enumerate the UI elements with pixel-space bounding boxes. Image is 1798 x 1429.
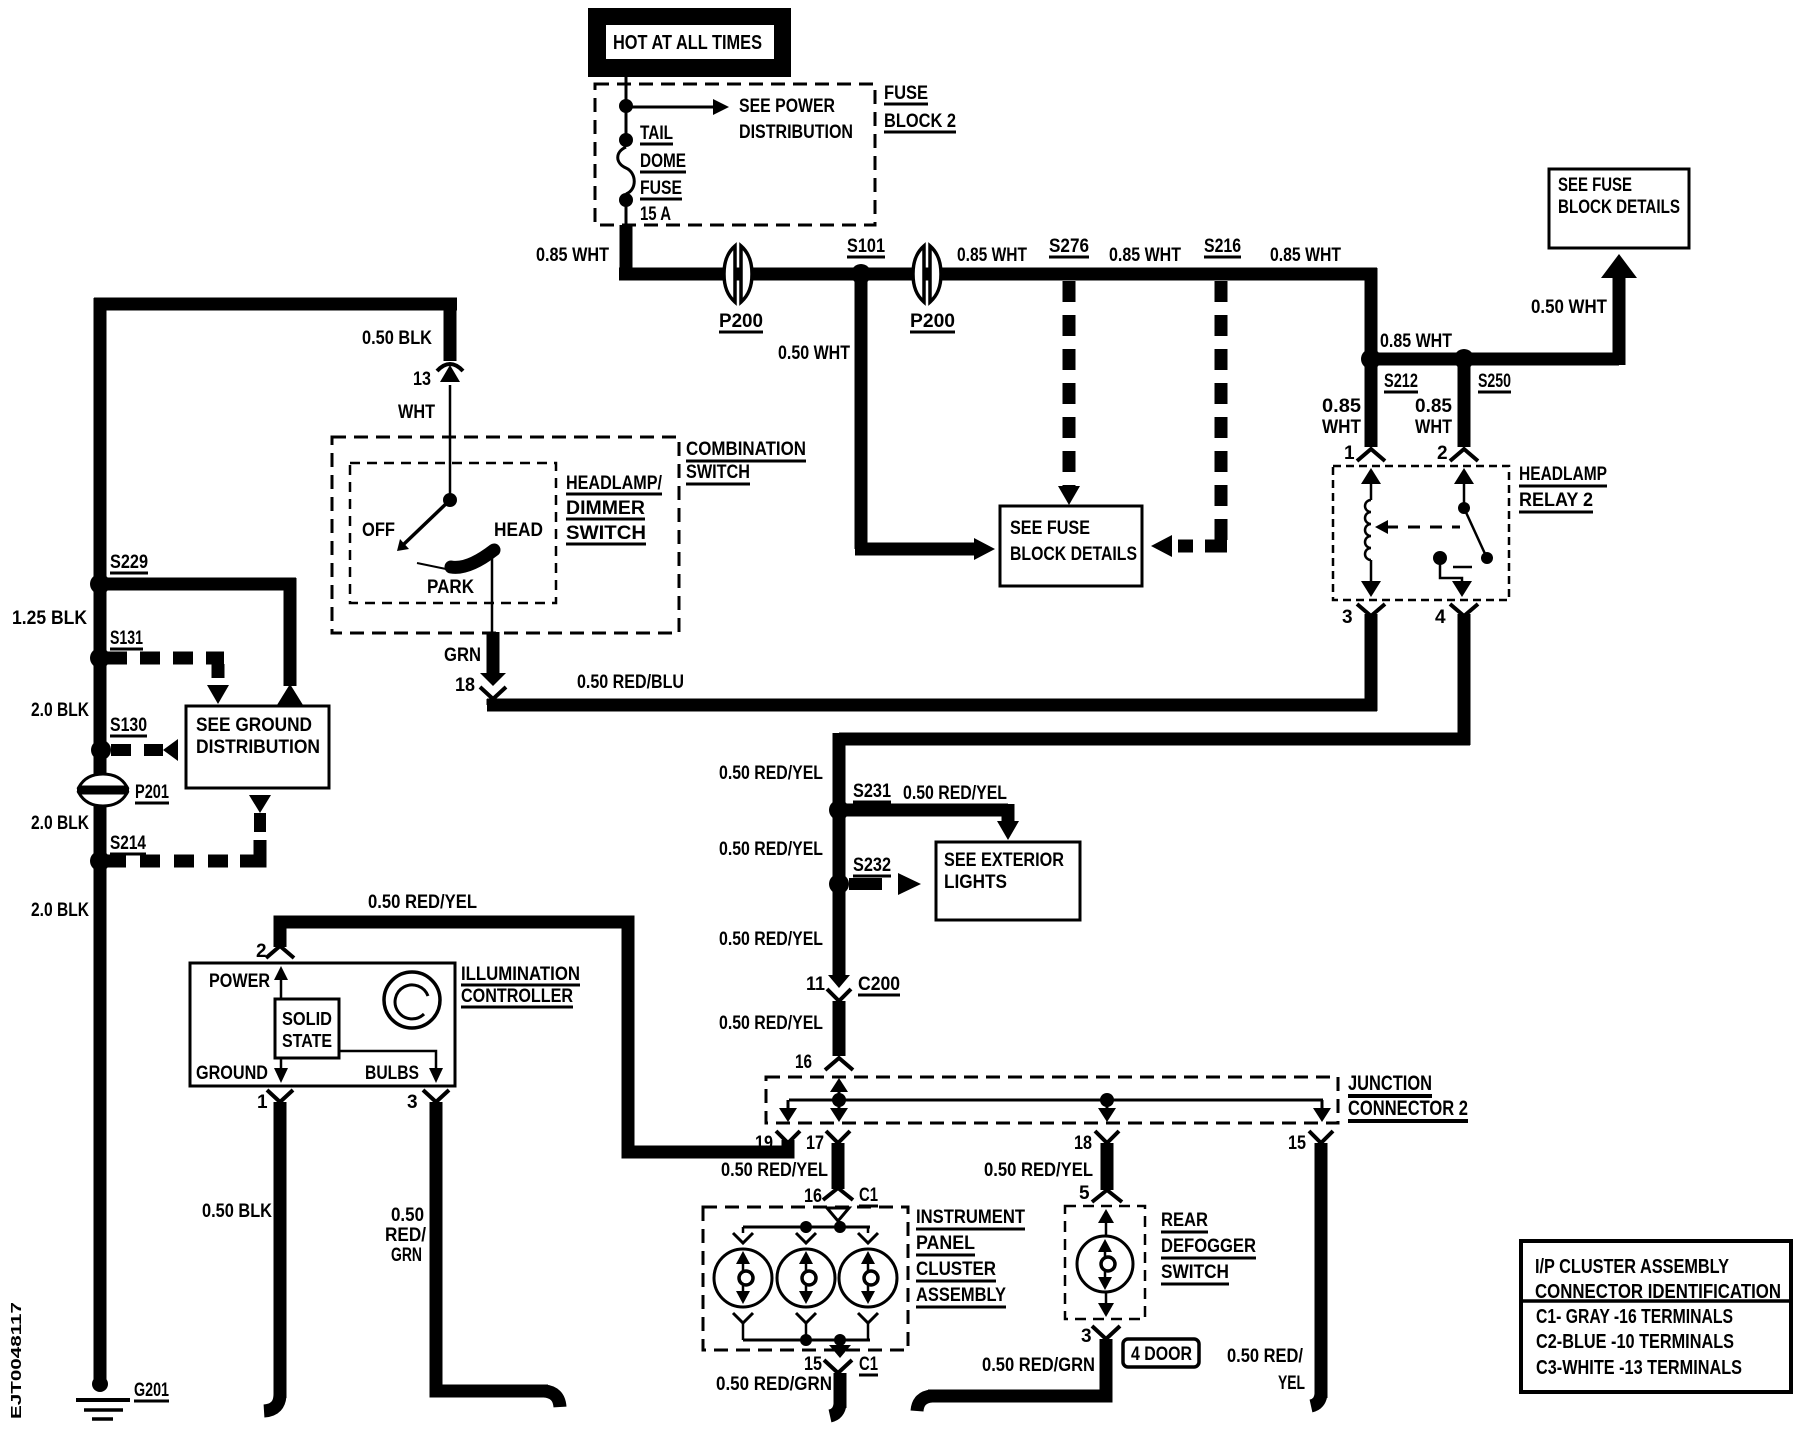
svg-text:RED/: RED/ <box>385 1225 427 1246</box>
label 1.25 BLK <box>12 608 87 629</box>
svg-text:SEE EXTERIOR: SEE EXTERIOR <box>944 850 1064 871</box>
svg-text:1.25 BLK: 1.25 BLK <box>12 608 87 629</box>
label HEADLAMP/ DIMMER SWITCH <box>566 473 663 544</box>
label COMBINATION SWITCH <box>686 439 806 484</box>
lamp bulb 1 <box>714 1249 772 1307</box>
svg-text:C1- GRAY -16 TERMINALS: C1- GRAY -16 TERMINALS <box>1536 1306 1733 1328</box>
node S212 <box>1361 349 1381 369</box>
svg-text:DISTRIBUTION: DISTRIBUTION <box>196 737 320 758</box>
wire main 0.85 WHT feed horizontal <box>619 268 1377 281</box>
wire relay pin 2 feed <box>1458 359 1471 447</box>
svg-text:S276: S276 <box>1049 236 1089 257</box>
label S229 <box>110 552 148 573</box>
label 0.50 WHT <box>778 343 850 364</box>
node S250 <box>1454 349 1474 369</box>
controller knob <box>384 972 440 1028</box>
svg-text:0.50 BLK: 0.50 BLK <box>202 1201 272 1222</box>
junction internal arrow pin 18 <box>1098 1100 1116 1122</box>
label S131 <box>110 628 143 649</box>
svg-text:0.85 WHT: 0.85 WHT <box>957 245 1027 266</box>
junction internal arrow pin 15 <box>1313 1100 1331 1122</box>
defogger lamp <box>1077 1236 1133 1292</box>
label S212 <box>1384 371 1418 392</box>
svg-text:0.50 RED/YEL: 0.50 RED/YEL <box>719 763 823 784</box>
svg-text:ASSEMBLY: ASSEMBLY <box>916 1285 1006 1306</box>
svg-text:0.50 WHT: 0.50 WHT <box>778 343 850 364</box>
wire S214 dashed branch from ground distribution <box>107 795 271 861</box>
svg-text:17: 17 <box>806 1133 824 1154</box>
connector C200 pin 11 <box>806 974 851 1001</box>
label 0.50 RED/YEL (S231 branch) <box>903 783 1007 804</box>
svg-text:S212: S212 <box>1384 371 1418 392</box>
svg-text:HEADLAMP/: HEADLAMP/ <box>566 473 663 494</box>
C1 pin 15 terminal <box>804 1354 852 1375</box>
wire cluster pin 15 down <box>830 1373 840 1416</box>
cluster exit triangle <box>829 1340 851 1358</box>
svg-text:15: 15 <box>804 1354 822 1375</box>
svg-text:2.0 BLK: 2.0 BLK <box>31 900 89 921</box>
switch contact arc <box>417 550 494 569</box>
wire drop to combination switch pin 13 <box>444 298 457 361</box>
controller internal bulbs arrow <box>339 1051 443 1083</box>
label P201 <box>135 782 169 803</box>
svg-text:S231: S231 <box>853 781 891 802</box>
svg-text:GRN: GRN <box>391 1245 422 1266</box>
label C200 <box>858 974 900 995</box>
svg-text:P200: P200 <box>910 311 955 332</box>
label SEE POWER DISTRIBUTION <box>739 96 853 143</box>
label 0.85 WHT (pin2) <box>1415 396 1452 438</box>
bulb 2 top terminal <box>796 1227 816 1243</box>
label P200 (right) <box>910 311 955 332</box>
label 0.50 RED/ GRN <box>385 1205 427 1266</box>
pin 1 terminal <box>1344 443 1385 464</box>
svg-text:P201: P201 <box>135 782 169 803</box>
wire from HOT box into fuse block <box>625 77 628 134</box>
svg-text:4: 4 <box>1435 607 1446 628</box>
label BULBS <box>365 1063 419 1084</box>
svg-text:0.85 WHT: 0.85 WHT <box>1270 245 1341 266</box>
svg-text:CLUSTER: CLUSTER <box>916 1259 996 1280</box>
svg-text:SWITCH: SWITCH <box>1161 1262 1229 1283</box>
bulb 3 bottom terminal <box>858 1313 878 1340</box>
connector P201 <box>77 774 129 806</box>
wire HEAD contact down <box>491 553 494 632</box>
label 0.85 WHT (3) <box>1109 245 1181 266</box>
junction connector 2 dashed box <box>766 1077 1338 1123</box>
svg-text:0.50 RED/YEL: 0.50 RED/YEL <box>368 892 477 913</box>
svg-text:2.0 BLK: 2.0 BLK <box>31 813 89 834</box>
svg-text:0.85 WHT: 0.85 WHT <box>536 245 609 266</box>
svg-text:INSTRUMENT: INSTRUMENT <box>916 1207 1025 1228</box>
pin 4 terminal <box>1435 604 1478 628</box>
svg-text:S131: S131 <box>110 628 143 649</box>
junction internal arrow pin 19 <box>779 1100 797 1122</box>
svg-text:4 DOOR: 4 DOOR <box>1131 1344 1192 1365</box>
node cluster top bus left <box>800 1221 812 1233</box>
svg-text:GROUND: GROUND <box>196 1063 268 1084</box>
svg-text:RELAY 2: RELAY 2 <box>1519 490 1593 511</box>
svg-text:STATE: STATE <box>282 1031 332 1051</box>
wire S130 dashed stub with arrow <box>111 739 178 761</box>
svg-text:0.85 WHT: 0.85 WHT <box>1109 245 1181 266</box>
node S101 <box>851 264 871 284</box>
svg-text:CONNECTOR IDENTIFICATION: CONNECTOR IDENTIFICATION <box>1535 1281 1781 1303</box>
svg-text:HEAD: HEAD <box>494 520 543 541</box>
bulb 2 bottom terminal <box>796 1313 816 1340</box>
svg-text:CONTROLLER: CONTROLLER <box>461 986 573 1007</box>
headlamp/dimmer switch inner dashed box <box>350 463 556 603</box>
svg-text:0.50 BLK: 0.50 BLK <box>362 328 432 349</box>
svg-text:S229: S229 <box>110 552 148 573</box>
lamp bulb 2 <box>777 1249 835 1307</box>
wire S231 to C200 vertical <box>833 810 846 975</box>
label S250 <box>1478 371 1511 392</box>
wire riser to fuse block details (top right) <box>1601 254 1637 365</box>
label 0.85 WHT (2) <box>957 245 1027 266</box>
label C1 (bottom) <box>859 1354 878 1375</box>
svg-text:CONNECTOR 2: CONNECTOR 2 <box>1348 1097 1468 1120</box>
svg-text:5: 5 <box>1079 1183 1090 1204</box>
pin 18 terminal <box>455 673 506 699</box>
label S214 <box>110 833 146 854</box>
label 0.50 RED/YEL (above S231) <box>719 763 823 784</box>
svg-text:HEADLAMP: HEADLAMP <box>1519 464 1607 485</box>
cluster bottom bus <box>743 1339 870 1342</box>
label 0.50 RED/YEL (pin 18) <box>984 1160 1093 1181</box>
svg-text:3: 3 <box>1081 1326 1092 1347</box>
relay actuation dashed link <box>1375 520 1460 534</box>
wire top-right corner down <box>1365 268 1378 359</box>
svg-text:C200: C200 <box>858 974 900 995</box>
svg-text:2.0 BLK: 2.0 BLK <box>31 700 89 721</box>
svg-text:PARK: PARK <box>427 577 474 598</box>
svg-text:SEE FUSE: SEE FUSE <box>1010 518 1090 539</box>
svg-text:C3-WHITE -13 TERMINALS: C3-WHITE -13 TERMINALS <box>1536 1357 1742 1379</box>
label P200 (left) <box>719 311 763 332</box>
label EJT0048117 (vertical) <box>8 1302 25 1419</box>
svg-text:JUNCTION: JUNCTION <box>1348 1072 1432 1095</box>
label 0.50 RED/GRN (cluster) <box>716 1374 832 1395</box>
label ILLUMINATION CONTROLLER <box>461 964 580 1007</box>
svg-text:18: 18 <box>455 675 475 696</box>
label JUNCTION CONNECTOR 2 <box>1348 1072 1468 1121</box>
svg-text:C1: C1 <box>859 1354 878 1375</box>
svg-text:1: 1 <box>257 1092 268 1113</box>
svg-text:1: 1 <box>1344 443 1355 464</box>
pin 3 terminal <box>407 1090 449 1113</box>
wire controller bulbs 0.50 RED/GRN <box>436 1102 560 1407</box>
label HEADLAMP RELAY 2 <box>1519 464 1607 512</box>
svg-text:G201: G201 <box>134 1380 169 1401</box>
svg-text:3: 3 <box>407 1092 418 1113</box>
switch pivot node <box>443 493 457 507</box>
label HEAD <box>494 520 543 541</box>
SEE FUSE BLOCK DETAILS box (top right) <box>1549 169 1689 248</box>
wire pin 15 down right column <box>1311 1143 1321 1406</box>
label INSTRUMENT PANEL CLUSTER ASSEMBLY <box>916 1207 1025 1307</box>
svg-text:18: 18 <box>1074 1133 1092 1154</box>
pin 17 terminal <box>806 1131 850 1154</box>
svg-text:S250: S250 <box>1478 371 1511 392</box>
svg-text:WHT: WHT <box>1415 417 1452 438</box>
combination switch outer dashed box <box>332 437 679 633</box>
defogger pin 3 terminal <box>1081 1326 1120 1347</box>
pin 3 terminal <box>1342 604 1385 628</box>
svg-text:16: 16 <box>804 1186 822 1207</box>
pin 2 terminal <box>256 941 294 962</box>
wire S276 dashed drop <box>1058 281 1080 505</box>
svg-text:GRN: GRN <box>444 645 481 666</box>
bulb 1 bottom terminal <box>733 1313 753 1340</box>
wire relay pin 1 feed <box>1365 359 1378 447</box>
node cluster top bus entry <box>834 1221 846 1233</box>
label 0.50 RED/GRN (defogger) <box>982 1355 1095 1376</box>
label POWER <box>209 971 270 992</box>
svg-text:P200: P200 <box>719 311 763 332</box>
svg-text:0.50 RED/GRN: 0.50 RED/GRN <box>982 1355 1095 1376</box>
svg-text:0.50 RED/YEL: 0.50 RED/YEL <box>984 1160 1093 1181</box>
controller internal power arrow <box>274 966 288 999</box>
SEE GROUND DISTRIBUTION box <box>186 706 329 788</box>
svg-text:DEFOGGER: DEFOGGER <box>1161 1236 1256 1257</box>
wire S131 dashed branch <box>107 658 229 704</box>
wire left main ground run <box>94 298 107 1384</box>
label G201 <box>134 1380 169 1401</box>
svg-text:DIMMER: DIMMER <box>566 498 645 519</box>
svg-text:S216: S216 <box>1204 236 1241 257</box>
svg-text:3: 3 <box>1342 607 1353 628</box>
svg-text:0.85: 0.85 <box>1415 396 1452 417</box>
svg-text:SOLID: SOLID <box>282 1009 332 1029</box>
node S232 <box>829 874 849 894</box>
svg-text:BLOCK DETAILS: BLOCK DETAILS <box>1558 197 1680 218</box>
label 2.0 BLK (2) <box>31 813 89 834</box>
svg-text:19: 19 <box>755 1133 773 1154</box>
fuse TAIL DOME 15A symbol <box>618 133 635 225</box>
wire controller ground 0.50 BLK <box>264 1102 280 1411</box>
label 0.50 RED/ YEL (right) <box>1227 1346 1305 1394</box>
relay switch <box>1433 468 1493 597</box>
pin 13 terminal <box>413 364 463 390</box>
wire S216 dashed drop to fuse details <box>1151 281 1227 557</box>
svg-text:11: 11 <box>806 974 825 995</box>
pin 1 terminal <box>257 1090 293 1113</box>
label 0.50 RED/BLU <box>577 672 684 693</box>
svg-text:15: 15 <box>1288 1133 1306 1154</box>
svg-text:S130: S130 <box>110 715 147 736</box>
wire top left horizontal <box>94 298 457 311</box>
relay coil <box>1361 468 1381 597</box>
svg-text:DISTRIBUTION: DISTRIBUTION <box>739 122 853 143</box>
svg-text:TAIL: TAIL <box>640 123 673 144</box>
wire pin13 into switch <box>449 385 452 497</box>
label C1 (top) <box>859 1185 878 1206</box>
wire defogger pin 3 to hook <box>917 1339 1106 1411</box>
wire relay pin 4 drop to RED/YEL run <box>839 614 1470 810</box>
label 2.0 BLK <box>31 700 89 721</box>
label 0.50 RED/YEL (C200-16) <box>719 1013 823 1034</box>
svg-text:2: 2 <box>1437 443 1448 464</box>
svg-text:ILLUMINATION: ILLUMINATION <box>461 964 580 985</box>
rear defogger switch dashed box <box>1065 1206 1145 1319</box>
SEE EXTERIOR LIGHTS box <box>936 842 1080 920</box>
svg-text:YEL: YEL <box>1278 1373 1305 1394</box>
wire C200 to junction connector pin 16 <box>825 1001 853 1070</box>
switch lever to OFF <box>397 500 450 551</box>
node S229 <box>90 574 110 594</box>
junction internal double arrow (pin 16/17) <box>830 1078 848 1122</box>
label 0.50 RED/YEL (S232-C200) <box>719 929 823 950</box>
4 DOOR tag <box>1123 1339 1199 1367</box>
node fuse feed junction <box>619 99 633 113</box>
illumination controller box <box>190 963 455 1086</box>
wire GRN output <box>487 632 500 673</box>
svg-text:0.50: 0.50 <box>391 1205 424 1226</box>
svg-text:SEE POWER: SEE POWER <box>739 96 835 117</box>
label OFF <box>362 520 395 541</box>
svg-text:15 A: 15 A <box>640 204 671 225</box>
node S130 <box>91 740 111 760</box>
svg-text:0.85 WHT: 0.85 WHT <box>1380 331 1452 352</box>
svg-text:16: 16 <box>795 1052 812 1073</box>
node S131 <box>90 648 110 668</box>
label REAR DEFOGGER SWITCH <box>1161 1210 1256 1284</box>
cluster entry triangle <box>827 1208 849 1227</box>
svg-text:LIGHTS: LIGHTS <box>944 872 1007 893</box>
label S232 <box>853 855 891 876</box>
SEE FUSE BLOCK DETAILS box (middle) <box>1000 506 1142 586</box>
label S101 <box>847 236 885 257</box>
label 0.50 BLK <box>362 328 432 349</box>
label 0.85 WHT (pin1) <box>1322 396 1361 438</box>
label 0.50 RED/YEL (power run) <box>368 892 477 913</box>
svg-text:C1: C1 <box>859 1185 878 1206</box>
svg-text:0.50 RED/YEL: 0.50 RED/YEL <box>719 929 823 950</box>
svg-text:FUSE: FUSE <box>640 178 682 199</box>
ground G201 <box>76 1376 130 1419</box>
wire S101 0.50 WHT drop to fuse details <box>855 281 995 560</box>
svg-text:C2-BLUE -10 TERMINALS: C2-BLUE -10 TERMINALS <box>1536 1331 1734 1353</box>
defogger entry arrow <box>1098 1209 1114 1237</box>
label 0.50 RED/YEL (pin 19) <box>721 1160 828 1181</box>
wire S229 branch to ground distribution <box>100 578 303 705</box>
pin 15 terminal <box>1288 1131 1333 1154</box>
bulb 1 top terminal <box>733 1227 753 1243</box>
instrument panel cluster dashed box <box>703 1207 908 1350</box>
label 2.0 BLK (3) <box>31 900 89 921</box>
label 0.85 WHT <box>536 245 609 266</box>
svg-text:SEE GROUND: SEE GROUND <box>196 715 312 736</box>
svg-text:S101: S101 <box>847 236 885 257</box>
pin 19 terminal <box>755 1131 800 1154</box>
wire S231 branch to exterior lights <box>839 804 1019 840</box>
svg-text:SEE FUSE: SEE FUSE <box>1558 175 1632 196</box>
junction connector internal bus <box>789 1099 1323 1102</box>
pin 18 terminal <box>1074 1131 1119 1154</box>
cluster top bus <box>743 1226 870 1229</box>
lamp bulb 3 <box>839 1249 897 1307</box>
svg-text:0.50 RED/YEL: 0.50 RED/YEL <box>719 1013 823 1034</box>
svg-text:WHT: WHT <box>1322 417 1361 438</box>
label 0.50 RED/YEL (S231-S232) <box>719 839 823 860</box>
node S231 <box>829 800 849 820</box>
label GRN <box>444 645 481 666</box>
svg-text:2: 2 <box>256 941 267 962</box>
wire 0.50 RED/BLU horizontal <box>487 614 1377 711</box>
bulb 3 top terminal <box>858 1227 878 1243</box>
svg-text:0.50 RED/BLU: 0.50 RED/BLU <box>577 672 684 693</box>
label TAIL DOME FUSE 15 A <box>640 123 686 225</box>
svg-text:S214: S214 <box>110 833 146 854</box>
label 0.50 WHT (top right) <box>1531 297 1607 318</box>
I/P cluster connector identification table <box>1521 1241 1791 1392</box>
svg-text:REAR: REAR <box>1161 1210 1208 1231</box>
connector P200 (right) <box>913 246 941 302</box>
fuse block 2 dashed box <box>595 84 875 225</box>
svg-text:0.50 RED/: 0.50 RED/ <box>1227 1346 1304 1367</box>
svg-text:COMBINATION: COMBINATION <box>686 439 806 460</box>
svg-text:0.50 RED/YEL: 0.50 RED/YEL <box>719 839 823 860</box>
defogger pin 5 terminal <box>1079 1183 1122 1204</box>
svg-text:I/P CLUSTER ASSEMBLY: I/P CLUSTER ASSEMBLY <box>1535 1256 1730 1278</box>
HOT AT ALL TIMES power box <box>588 8 791 77</box>
svg-text:13: 13 <box>413 369 431 390</box>
label S216 <box>1204 236 1241 257</box>
label pin 16 <box>795 1052 812 1073</box>
label S276 <box>1049 236 1089 257</box>
svg-text:WHT: WHT <box>398 402 435 423</box>
svg-text:PANEL: PANEL <box>916 1233 975 1254</box>
svg-text:0.85: 0.85 <box>1322 396 1361 417</box>
SOLID STATE box <box>275 999 339 1058</box>
wire illumination power run (pin19 to controller pin2) <box>280 922 788 1152</box>
relay U headlamp relay 2 dashed box <box>1333 466 1509 600</box>
arrow to SEE POWER DISTRIBUTION <box>626 99 729 115</box>
svg-text:0.50 WHT: 0.50 WHT <box>1531 297 1607 318</box>
label S130 <box>110 715 147 736</box>
controller internal ground arrow <box>274 1058 288 1083</box>
wire pin 17 to cluster C1 <box>832 1143 845 1189</box>
svg-text:S232: S232 <box>853 855 891 876</box>
svg-text:EJT0048117: EJT0048117 <box>8 1302 25 1419</box>
svg-text:BLOCK DETAILS: BLOCK DETAILS <box>1010 544 1137 565</box>
wire pin 18 to defogger <box>1101 1143 1114 1190</box>
label PARK <box>427 577 474 598</box>
pin 2 terminal <box>1437 443 1478 464</box>
svg-text:DOME: DOME <box>640 151 686 172</box>
label FUSE BLOCK 2 <box>884 83 956 132</box>
svg-text:SWITCH: SWITCH <box>686 462 750 483</box>
node cluster bottom bus exit <box>834 1334 846 1346</box>
label 0.85 WHT (above S212) <box>1380 331 1452 352</box>
svg-text:0.50 RED/YEL: 0.50 RED/YEL <box>903 783 1007 804</box>
node cluster bottom bus left <box>800 1334 812 1346</box>
wire fuse output stub <box>620 225 633 274</box>
label S231 <box>853 781 891 802</box>
label 0.50 BLK (controller) <box>202 1201 272 1222</box>
label 0.85 WHT (4) <box>1270 245 1341 266</box>
wire S212-S250 horizontal <box>1365 353 1619 366</box>
node junction bus at pin 18 <box>1100 1093 1114 1107</box>
wire S232 dashed arrow to exterior lights <box>849 873 921 895</box>
label GROUND <box>196 1063 268 1084</box>
defogger exit arrow <box>1098 1292 1114 1317</box>
svg-text:0.50 RED/GRN: 0.50 RED/GRN <box>716 1374 832 1395</box>
svg-text:HOT AT ALL TIMES: HOT AT ALL TIMES <box>613 32 762 54</box>
svg-text:BULBS: BULBS <box>365 1063 419 1084</box>
svg-text:POWER: POWER <box>209 971 270 992</box>
